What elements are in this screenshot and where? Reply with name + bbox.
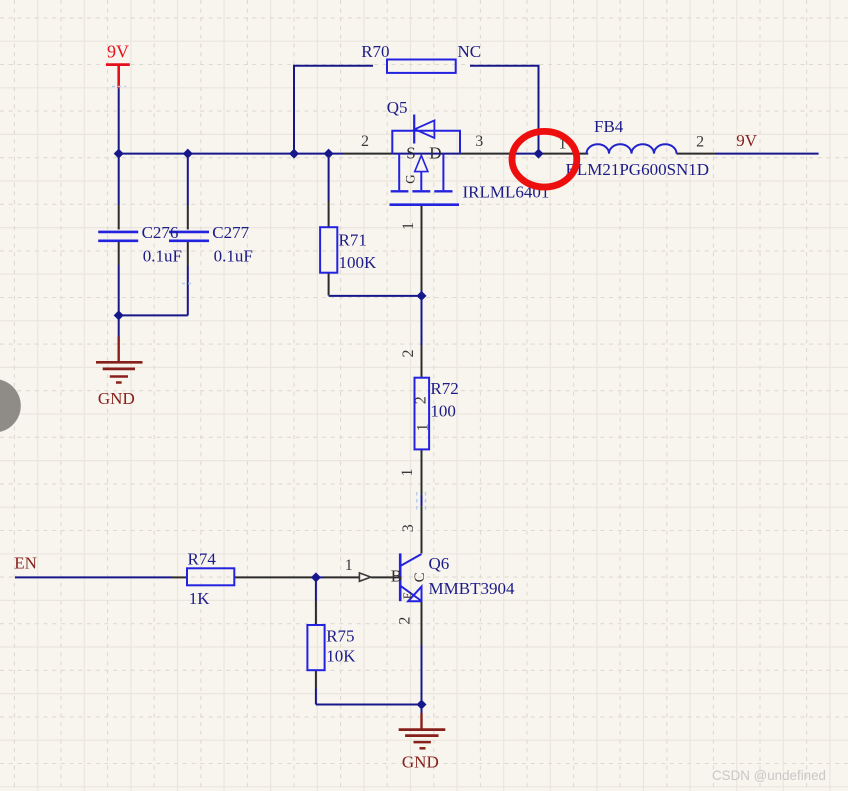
svg-text:3: 3 [475, 133, 483, 150]
svg-text:2: 2 [412, 396, 429, 404]
svg-text:R74: R74 [188, 550, 217, 569]
svg-text:2: 2 [396, 617, 413, 625]
svg-text:2: 2 [400, 350, 417, 358]
svg-text:D: D [429, 144, 441, 163]
svg-text:C: C [412, 572, 428, 582]
svg-text:Q5: Q5 [387, 98, 408, 117]
svg-text:0.1uF: 0.1uF [143, 247, 182, 266]
svg-text:1K: 1K [189, 589, 211, 608]
svg-text:C276: C276 [142, 223, 179, 242]
svg-text:0.1uF: 0.1uF [214, 247, 253, 266]
svg-text:B: B [391, 566, 402, 585]
svg-text:R72: R72 [430, 379, 458, 398]
svg-text:R70: R70 [361, 42, 389, 61]
svg-text:100K: 100K [339, 253, 378, 272]
svg-text:2: 2 [696, 133, 704, 150]
svg-text:2: 2 [361, 133, 369, 150]
svg-text:FB4: FB4 [594, 117, 624, 136]
svg-text:1: 1 [345, 557, 353, 574]
svg-text:G: G [403, 174, 418, 183]
svg-text:100: 100 [430, 402, 456, 421]
svg-text:1: 1 [414, 423, 431, 431]
svg-text:CSDN @undefined: CSDN @undefined [712, 767, 826, 783]
svg-text:9V: 9V [107, 41, 129, 61]
svg-text:E: E [400, 592, 414, 599]
svg-text:1: 1 [399, 469, 416, 477]
svg-text:GND: GND [402, 752, 439, 771]
svg-text:EN: EN [14, 554, 37, 573]
svg-text:MMBT3904: MMBT3904 [429, 579, 515, 598]
svg-text:C277: C277 [212, 223, 249, 242]
svg-text:10K: 10K [326, 647, 356, 666]
svg-text:9V: 9V [736, 131, 758, 150]
svg-text:BLM21PG600SN1D: BLM21PG600SN1D [566, 160, 710, 179]
svg-text:R71: R71 [339, 230, 367, 249]
svg-text:S: S [406, 144, 415, 163]
svg-text:1: 1 [400, 222, 417, 230]
svg-text:3: 3 [400, 524, 417, 532]
svg-text:NC: NC [458, 42, 482, 61]
svg-text:GND: GND [98, 389, 135, 408]
svg-text:Q6: Q6 [429, 554, 450, 573]
svg-text:R75: R75 [326, 627, 354, 646]
